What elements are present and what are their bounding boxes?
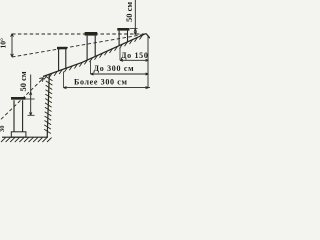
svg-text:До 150: До 150 <box>121 51 149 60</box>
ground hatching <box>1 138 52 142</box>
ground line <box>2 136 48 138</box>
50cm dimension at ridge <box>134 0 136 35</box>
svg-text:Более 300 см: Более 300 см <box>74 78 128 87</box>
50cm dimension B <box>30 75 32 116</box>
svg-text:50 см: 50 см <box>18 71 28 91</box>
roof slope line <box>43 34 146 77</box>
svg-text:До 300 см: До 300 см <box>94 64 135 73</box>
svg-text:50 см: 50 см <box>124 2 134 22</box>
roof right slope stub at ridge <box>146 34 150 39</box>
chimney B body <box>14 100 23 132</box>
wall of adjacent building <box>47 74 49 137</box>
svg-text:10°: 10° <box>0 38 8 49</box>
chimney B cap <box>11 97 26 100</box>
dim row 2: Do 300 sm <box>91 73 149 75</box>
chimney C1 (far from ridge) <box>57 47 67 50</box>
dashed 10-degree line <box>12 34 146 57</box>
angle indicator vertical <box>11 34 13 58</box>
right extension line <box>147 36 149 88</box>
roof hatching <box>44 35 142 79</box>
chimney C3 (near ridge) <box>117 28 129 31</box>
dim row 1: Do 150 <box>120 59 149 61</box>
chimney B base <box>11 132 26 137</box>
wall hatching <box>44 77 52 134</box>
dim row 3: Bolee 300 sm <box>64 87 151 89</box>
dashed ridge-level line <box>12 33 146 35</box>
chimney C2 (middle) <box>85 32 98 36</box>
svg-text:30: 30 <box>0 126 6 133</box>
45-degree wind zone dashed line <box>1 80 42 119</box>
